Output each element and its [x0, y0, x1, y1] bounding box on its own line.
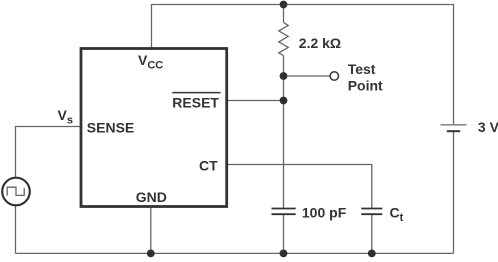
label 2.2 kOhm: [299, 35, 341, 51]
IC U1 body: [81, 49, 227, 207]
wire: resistor branch vertical (node to 100 pF): [283, 5, 285, 209]
svg-text:GND: GND: [136, 189, 167, 205]
label Ct: [390, 204, 404, 224]
test point terminal circle: [330, 72, 338, 80]
wire: CT pin to Ct capacitor: [227, 165, 372, 209]
svg-text:Point: Point: [348, 78, 383, 94]
source V1 square-wave generator: [2, 178, 30, 206]
label 3 V: [478, 119, 498, 135]
junction node: RESET / resistor branch: [280, 97, 288, 105]
svg-text:CT: CT: [199, 157, 218, 173]
svg-text:2.2 kΩ: 2.2 kΩ: [299, 35, 341, 51]
wire: source to Vs / SENSE pin: [16, 127, 82, 178]
label Vs: [58, 107, 73, 127]
wire: left rail below source: [15, 206, 17, 254]
junction node: Ct / bottom rail: [368, 250, 376, 258]
label 100 pF: [302, 204, 347, 220]
svg-text:SENSE: SENSE: [87, 120, 134, 136]
battery BT1 3 V positive plate: [441, 124, 467, 126]
junction node: GND / bottom rail: [147, 250, 155, 258]
junction node: test point / resistor: [280, 72, 288, 80]
wire: GND pin to bottom rail: [150, 207, 152, 254]
pin label CT: [199, 157, 218, 173]
wire: 100 pF capacitor to bottom rail: [283, 214, 285, 253]
battery BT1 3 V negative plate: [447, 130, 460, 132]
svg-text:Ct: Ct: [390, 204, 404, 224]
capacitor C2 100 pF plates: [272, 209, 296, 215]
svg-text:3 V: 3 V: [478, 119, 498, 135]
svg-text:100 pF: 100 pF: [302, 204, 347, 220]
wire: Vcc top rail to battery: [152, 5, 454, 125]
resistor R1 2.2 k ohm: [279, 23, 288, 56]
label Test Point: [348, 61, 383, 93]
pin label VCC: [138, 52, 163, 72]
wire: RESET pin to node: [227, 100, 284, 102]
wire: battery negative to bottom rail: [453, 131, 455, 253]
pin label GND: [136, 189, 167, 205]
svg-text:Test: Test: [348, 61, 376, 77]
capacitor Ct plates: [361, 209, 382, 215]
junction node: top rail / resistor: [280, 1, 288, 9]
wire: Ct capacitor to bottom rail: [371, 214, 373, 253]
wire: bottom ground rail: [16, 252, 454, 254]
svg-text:RESET: RESET: [172, 94, 219, 110]
pin label SENSE: [87, 120, 134, 136]
junction node: 100 pF / bottom rail: [280, 250, 288, 258]
pin label RESET (active low, overline): [172, 93, 220, 111]
wire: test point stub: [284, 75, 331, 77]
svg-text:Vs: Vs: [58, 107, 73, 127]
